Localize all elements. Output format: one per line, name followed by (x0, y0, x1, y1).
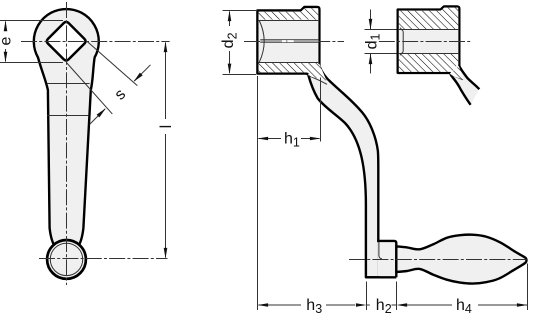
hatch lower hub band (259, 63, 319, 73)
hub/arm transition lines (307, 75, 320, 81)
svg-text:l: l (158, 125, 175, 129)
knob outer circle (47, 240, 86, 279)
vertical centerline (66, 2, 68, 285)
centerline (379, 41, 471, 43)
dimension d2: arrows (228, 11, 232, 22)
dimension h4: extension line at handle tip (527, 264, 529, 311)
dimension l: arrows (164, 42, 168, 53)
dimension d2: extension lines (223, 10, 257, 12)
dimension d2: dimension line (229, 12, 231, 27)
handle grip (olive shape) (396, 235, 526, 284)
hatch sliver at hub/arm corner (308, 64, 327, 81)
svg-text:e: e (0, 36, 14, 45)
dimension h3: dimension line (259, 304, 302, 306)
dimension h2: dimension line bits (367, 304, 370, 306)
dimension l: dimension line (165, 43, 167, 120)
hatch sliver (450, 66, 464, 80)
dimension e: extension lines (0, 20, 63, 22)
dimension e: dimension line (5, 22, 7, 31)
dimension h4: dimension line (407, 304, 452, 306)
dimension h1: arrows (258, 137, 269, 141)
hub fill (398, 6, 480, 104)
square hole (47, 22, 86, 61)
bore edge lines (259, 20, 319, 22)
dimension d1: extension lines (365, 29, 397, 31)
hub/arm transition line (450, 74, 463, 80)
dimension s: extension line A (top-right flat) (88, 42, 138, 86)
dimension s: arrows (134, 73, 143, 82)
arm contour line 2 (47, 115, 89, 117)
dimension h1: extension lines (257, 76, 259, 310)
dimension d1: dimension line (outside) (370, 10, 372, 30)
hatch lower band (399, 54, 458, 72)
arm contour line 1 (47, 83, 90, 85)
hub interior (399, 11, 458, 72)
bore back edge arc (259, 21, 264, 62)
bore chamfer edges (400, 28, 403, 32)
horizontal centerline of head / l top extension (21, 41, 170, 43)
square bore corner band (260, 39, 318, 42)
dimension e: arrows (4, 21, 8, 32)
crank body outline (head + tapered arm) (34, 9, 99, 246)
round bore d1 (399, 30, 458, 54)
dimension h3: arrows (258, 303, 269, 307)
hub centerline (244, 41, 344, 43)
hub interior (sectioned) (259, 12, 319, 73)
dimension s: dimension line tails (134, 65, 150, 81)
hatch upper band (399, 8, 458, 29)
handle centerline (349, 259, 527, 261)
dimension d1: arrows (369, 19, 373, 30)
knob inner circle (50, 243, 82, 275)
dimension h4: arrows (397, 303, 408, 307)
hatch upper hub band (259, 8, 319, 20)
bar edge behind collar (379, 242, 382, 259)
crank silhouette: hub + S-arm + vertical bar (257, 7, 378, 277)
dimension s: extension line B (bottom-left flat) (66, 63, 112, 114)
dimension h2: extension lines (366, 282, 368, 311)
knob horizontal centerline / l bottom extension (39, 258, 168, 260)
handle collar (377, 242, 395, 276)
hub outline (398, 6, 480, 104)
dimension h1: dimension line (259, 138, 282, 140)
bore (square hole seen in section) (259, 20, 319, 63)
